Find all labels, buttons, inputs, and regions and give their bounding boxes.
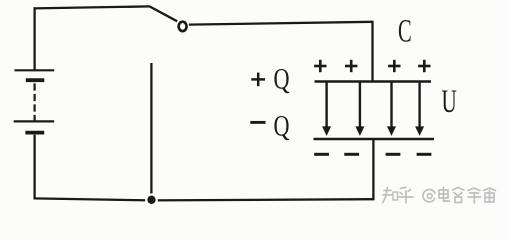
battery B short plate (top cell -) [26,78,45,82]
field arrow 1 [322,83,331,136]
switch S blade [150,6,178,21]
field arrow 4 [415,83,424,136]
wire switch to capacitor top [189,22,373,25]
plus charge 3 on top plate [388,60,400,72]
wire bottom return (battery to capacitor bottom) [34,198,374,200]
wire capacitor bottom plate down [372,139,374,200]
char rong [453,188,465,203]
char zhi [383,188,398,203]
minus charge 4 under bottom plate [417,153,432,156]
label -Q minus sign [250,121,265,124]
char at [423,190,435,202]
wire middle vertical (to junction) [150,63,152,200]
watermark zhihu highlight [384,190,495,203]
svg-text:Q: Q [274,61,290,95]
svg-text:C: C [398,13,412,49]
capacitor C top plate [315,80,432,83]
wire top-left horizontal (battery + terminal to switch) [34,6,151,8]
label +Q plus sign [251,73,265,87]
wire battery - terminal down [33,135,35,200]
battery dashed middle (cells omitted) [33,83,35,121]
plus charge 4 on top plate [418,60,430,72]
char zhou [484,188,496,202]
battery B short plate (bottom cell -) [25,131,44,135]
field arrow 2 [355,83,364,136]
battery B long plate (top cell +) [15,69,55,71]
minus charge 2 under bottom plate [344,153,359,156]
junction node [147,196,155,204]
char yu [468,188,481,203]
capacitor C bottom plate [314,138,435,141]
battery B long plate (bottom cell +) [14,120,55,122]
svg-text:U: U [442,82,457,119]
minus charge 1 under bottom plate [314,153,329,156]
wire down to capacitor top plate [371,21,373,82]
plus charge 2 on top plate [345,60,357,72]
svg-text:Q: Q [274,108,290,142]
junction node halo [145,193,158,206]
field arrow 3 [387,83,396,136]
plus charge 1 on top plate [314,60,326,72]
char hu [399,187,413,203]
minus charge 3 under bottom plate [386,153,401,156]
wire left vertical (to battery) [33,7,35,69]
watermark zhihu [383,187,496,203]
switch S terminal circle [179,22,187,31]
char dian [439,188,450,202]
